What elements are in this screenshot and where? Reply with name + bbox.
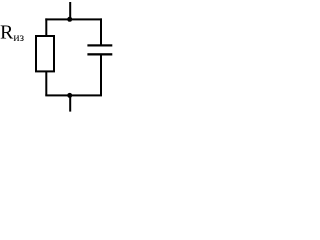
capacitor C top plate [87, 44, 112, 46]
resistor R (box) [36, 36, 54, 71]
wire capacitor top lead [100, 18, 102, 44]
wire bottom terminal stub [69, 95, 71, 111]
wire bottom horizontal [45, 94, 102, 96]
capacitor C bottom plate [87, 53, 112, 55]
node top junction dot [67, 17, 72, 22]
node bottom junction dot [67, 93, 72, 98]
wire resistor bottom lead [45, 72, 47, 96]
wire left drop to resistor [45, 18, 47, 36]
wire top terminal stub [69, 2, 71, 19]
wire top horizontal [45, 18, 102, 20]
wire capacitor bottom lead [100, 55, 102, 96]
